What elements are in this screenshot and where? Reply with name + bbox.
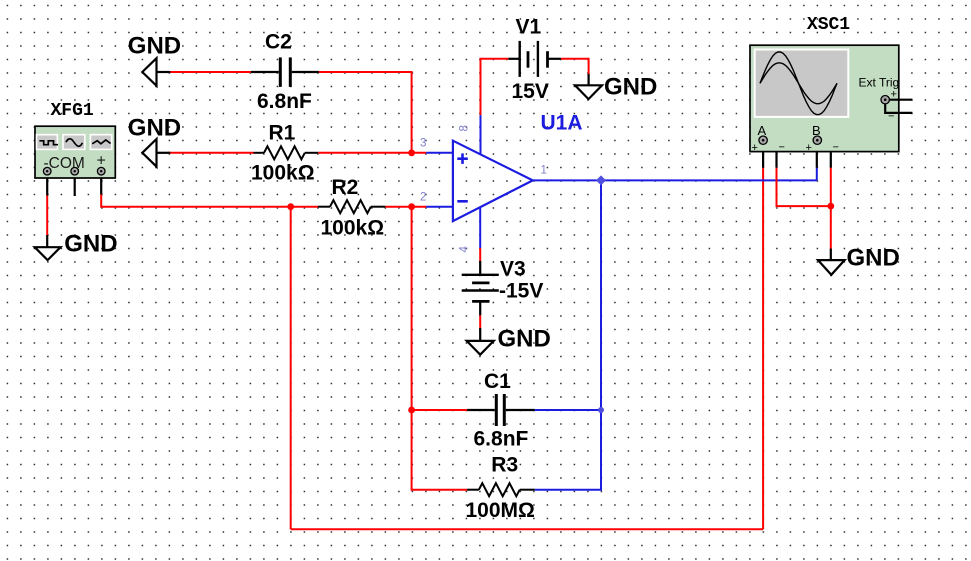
wire blue node3 to op-amp pin 3: [426, 152, 454, 154]
wire black scope B minus stub: [821, 140, 831, 168]
svg-text:XSC1: XSC1: [807, 15, 850, 35]
ground GND4: [575, 73, 657, 100]
wire black GND5 stub: [479, 328, 481, 341]
wire blue scope B plus: [816, 168, 818, 181]
svg-text:6.8nF: 6.8nF: [257, 90, 312, 113]
battery V1 15V: [508, 16, 548, 104]
wire red pin4 to V3: [479, 248, 481, 261]
wire red GND1 to C2: [168, 71, 251, 73]
resistor R2: [318, 176, 385, 239]
wire red XFG1 plus to R2 node: [101, 195, 291, 207]
wire red feedback left rail down: [290, 207, 292, 530]
svg-text:3: 3: [420, 138, 426, 150]
junction C1 right node: [598, 407, 604, 413]
wire black scope A minus stub: [767, 140, 777, 168]
wire red C1 left: [412, 409, 468, 411]
wire red V1 left lead down: [481, 59, 509, 115]
oscilloscope XSC1: [750, 15, 912, 154]
wire red R2 to node 2 junction: [385, 206, 426, 208]
svg-text:GND: GND: [128, 33, 181, 60]
svg-text:+: +: [806, 142, 812, 154]
resistor R3: [466, 454, 535, 522]
wire red node to R2: [291, 206, 318, 208]
wire red C2 to vertical corner: [319, 72, 412, 153]
wire red scope A minus to GND junction: [777, 168, 831, 206]
svg-text:XFG1: XFG1: [51, 101, 94, 121]
junction node 3: [408, 149, 415, 156]
wire red GND2 to R1: [168, 152, 254, 154]
wire blue op-amp pin 8: [480, 115, 482, 155]
junction C1 left node: [408, 407, 415, 414]
svg-text:U1A: U1A: [541, 111, 583, 134]
wire black scope B plus stub: [816, 143, 818, 168]
wire red junction to GND6: [830, 206, 832, 249]
svg-text:100MΩ: 100MΩ: [466, 499, 535, 522]
wire black XFG1 plus stub: [100, 172, 102, 195]
svg-text:V1: V1: [516, 16, 542, 39]
wire black V3 top lead: [479, 261, 481, 275]
svg-text:R3: R3: [491, 454, 518, 477]
battery V3 -15V: [462, 258, 544, 303]
svg-text:−: −: [888, 111, 894, 123]
wire black V1 right lead: [548, 58, 561, 60]
svg-text:R2: R2: [332, 176, 359, 199]
svg-text:-15V: -15V: [499, 280, 543, 303]
wire black scope A plus stub: [762, 143, 764, 168]
capacitor C2: [251, 30, 319, 113]
svg-text:GND: GND: [64, 230, 117, 257]
svg-text:C1: C1: [484, 370, 511, 393]
svg-text:−: −: [779, 142, 785, 154]
wire black XFG1 minus stub: [46, 172, 48, 196]
svg-text:+: +: [752, 142, 758, 154]
wire red scope B minus down: [830, 168, 832, 206]
svg-text:6.8nF: 6.8nF: [474, 428, 529, 451]
svg-text:1: 1: [541, 165, 547, 177]
wire black XFG1 COM stub: [74, 172, 76, 196]
wire red R1 to node 3 junction: [318, 152, 426, 154]
svg-text:100kΩ: 100kΩ: [251, 161, 315, 184]
wire blue C1 right: [535, 409, 601, 411]
wire black V3 bottom lead: [479, 301, 481, 315]
ground GND2: [128, 114, 181, 166]
ground GND5: [467, 325, 551, 354]
wire red XFG1 minus to GND3: [46, 196, 48, 236]
svg-text:8: 8: [459, 125, 471, 131]
wire blue op-amp pin 4: [479, 207, 481, 248]
ext trig pin stubs: [889, 99, 912, 101]
svg-text:C2: C2: [265, 30, 292, 53]
svg-text:15V: 15V: [512, 80, 549, 103]
svg-text:R1: R1: [269, 122, 296, 145]
svg-text:2: 2: [420, 192, 426, 204]
svg-text:+: +: [891, 89, 897, 101]
wire red node2 down to C1 and R3: [412, 207, 468, 490]
svg-text:4: 4: [459, 246, 471, 253]
resistor R1: [251, 122, 318, 185]
svg-text:GND: GND: [847, 244, 900, 271]
junction node 2: [408, 203, 415, 210]
ground GND3: [35, 230, 118, 260]
op-amp U1A: [453, 111, 583, 221]
junction output node diamond: [596, 175, 606, 185]
capacitor C1: [467, 370, 535, 451]
wire blue output feedback down: [535, 180, 601, 489]
svg-text:GND: GND: [128, 114, 181, 141]
ground GND1: [128, 33, 181, 86]
wire red scope A plus rail up: [762, 168, 764, 530]
svg-text:100kΩ: 100kΩ: [321, 216, 385, 239]
wire red bottom rail: [291, 528, 763, 530]
wire red V3 to GND5: [479, 315, 481, 328]
wire black GND6 stub: [830, 249, 832, 261]
function generator XFG1: [35, 101, 115, 178]
wire blue node2 to op-amp pin 2: [426, 206, 454, 208]
junction R2 input node: [287, 203, 294, 210]
junction scope ground node: [827, 203, 834, 210]
wire black GND4 stub: [587, 74, 589, 85]
svg-text:GND: GND: [498, 325, 551, 352]
svg-text:V3: V3: [500, 258, 526, 281]
svg-text:GND: GND: [604, 73, 657, 100]
svg-text:−: −: [833, 142, 839, 154]
ground GND6: [818, 244, 900, 275]
wire red V1 to GND4: [561, 59, 589, 74]
svg-text:Ext Trig: Ext Trig: [859, 76, 900, 90]
wire blue op-amp output row: [533, 179, 817, 181]
